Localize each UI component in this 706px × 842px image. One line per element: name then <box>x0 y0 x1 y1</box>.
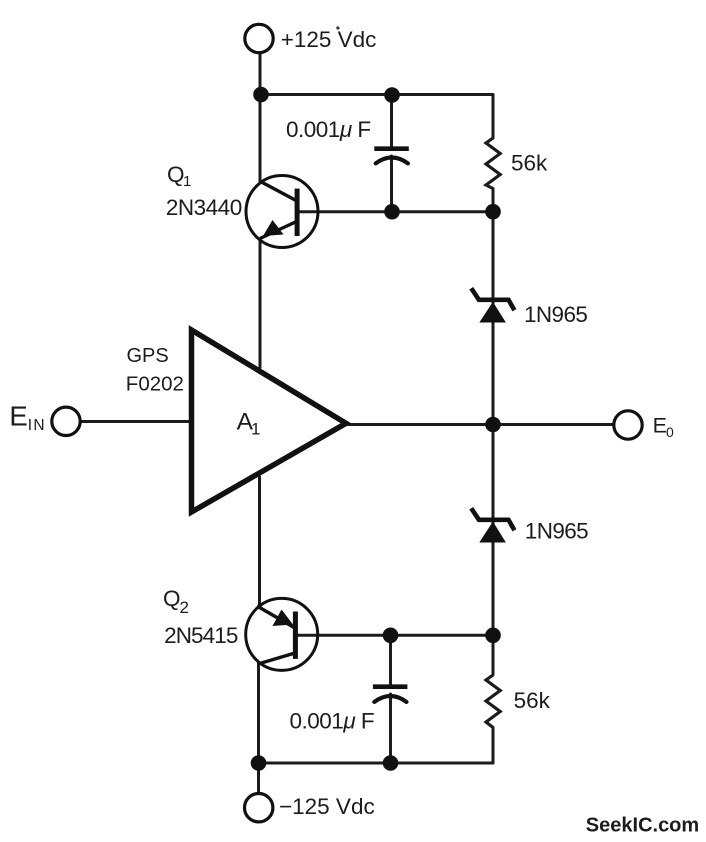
svg-text:SeekIC.com: SeekIC.com <box>586 815 699 837</box>
svg-text:E: E <box>9 401 27 432</box>
svg-text:E: E <box>653 414 667 438</box>
svg-text:GPS: GPS <box>127 345 169 367</box>
svg-text:+125 Vdc: +125 Vdc <box>281 27 377 52</box>
svg-text:F0202: F0202 <box>126 373 184 396</box>
svg-text:0.001μ F: 0.001μ F <box>286 117 371 142</box>
svg-text:56k: 56k <box>511 151 548 176</box>
svg-text:2N5415: 2N5415 <box>164 623 238 648</box>
svg-text:−125 Vdc: −125 Vdc <box>279 794 375 819</box>
svg-text:IN: IN <box>28 417 46 434</box>
svg-text:1N965: 1N965 <box>525 519 588 544</box>
svg-text:1N965: 1N965 <box>524 302 587 327</box>
svg-text:2N3440: 2N3440 <box>166 195 242 220</box>
svg-text:56k: 56k <box>514 688 551 713</box>
svg-text:0.001μ F: 0.001μ F <box>290 708 375 733</box>
svg-text:0: 0 <box>666 424 674 440</box>
svg-text:1: 1 <box>251 420 260 439</box>
